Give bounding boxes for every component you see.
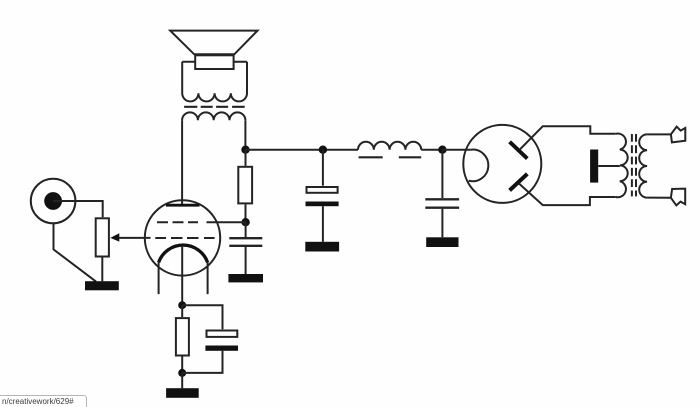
- output transformer T1 secondary winding: [182, 112, 245, 120]
- wire: plate 1 to T2 HT top: [520, 126, 616, 150]
- browser status bar: [0, 395, 87, 407]
- node A (B+ at secondary/screen resistor): [241, 146, 249, 154]
- ground (input): [85, 281, 119, 290]
- speaker LS1 magnet: [195, 55, 233, 69]
- wire: pot bottom to ground: [101, 258, 103, 282]
- wire: jack tip to pot top: [53, 201, 103, 217]
- wire: centre tap: [598, 165, 620, 167]
- capacitor C2 bottom plate: [205, 346, 238, 351]
- speaker LS1 cone: [170, 31, 257, 55]
- capacitor C1 (screen bypass) top plate: [229, 237, 262, 239]
- potentiometer VR1 body: [96, 218, 109, 256]
- wire: screen node to C1: [245, 222, 247, 237]
- resistor R2 (cathode bias): [181, 305, 183, 317]
- mains arrow (bottom, pointing NE): [671, 189, 685, 206]
- output transformer T1 core (dashed line): [184, 106, 245, 108]
- ground (cathode): [166, 388, 199, 398]
- power transformer T2 centre-tap chassis bar: [590, 150, 598, 183]
- resistor R1 (screen dropper): [245, 150, 247, 166]
- wire: choke to node C: [421, 149, 442, 151]
- wire: T1 secondary left to V1 anode: [181, 120, 183, 204]
- capacitor C2 (cathode bypass) branch wires: [182, 305, 222, 373]
- output transformer T1 primary winding (cup with scalloped bottom): [182, 62, 247, 102]
- power transformer T2 core (two dashed lines): [632, 134, 636, 196]
- rectifier V2 plate 1 (top): [510, 142, 528, 159]
- ground (screen bypass): [228, 274, 263, 282]
- wire: screen node to tube grid 2: [207, 221, 246, 223]
- wire: wiper to tube grid 1: [119, 237, 151, 239]
- ground (filter 1): [305, 242, 339, 252]
- potentiometer VR1 wiper arrow: [110, 233, 119, 241]
- capacitor C4 (filter 2): [441, 150, 443, 198]
- rectifier V2 envelope: [463, 125, 541, 203]
- power transformer T2 primary winding: [639, 134, 647, 197]
- ground (filter 2): [426, 237, 458, 247]
- wire: plate 2 to T2 HT bottom: [519, 184, 616, 205]
- wire: node K2 to ground: [181, 373, 183, 388]
- input jack J1 outer: [31, 179, 76, 224]
- node B (filter cap 1 tap): [319, 146, 327, 154]
- rectifier V2 plate 2 (bottom): [510, 174, 528, 191]
- capacitor C2 top plate: [207, 331, 238, 337]
- node C (filter cap 2 tap): [438, 146, 446, 154]
- wire: B+ bus node A to choke: [246, 149, 359, 151]
- wire: jack sleeve to ground (diagonal): [54, 224, 97, 282]
- capacitor C1 bottom plate: [229, 245, 262, 247]
- node D (screen grid node): [241, 218, 249, 226]
- input jack J1 tip contact: [44, 192, 62, 210]
- power transformer T2 HT secondary winding: [616, 134, 628, 198]
- mains arrow (top, pointing SE): [671, 127, 685, 143]
- capacitor C3 (filter 1, electrolytic): [322, 150, 324, 186]
- tube V1 envelope: [145, 200, 220, 275]
- wire: T2 primary top to mains arrow: [647, 133, 671, 135]
- wire: T1 secondary right down to node A: [244, 120, 246, 149]
- wire: cathode down to node K1: [181, 247, 183, 305]
- tube V1 cathode arc: [159, 245, 208, 262]
- choke L1: [358, 142, 421, 150]
- tube V1 grid 2 (screen, dashed): [157, 221, 198, 223]
- wire: node C to rectifier V2 filament: [442, 149, 470, 151]
- wire: C1 to ground: [245, 247, 247, 274]
- choke L1 core dashes: [359, 156, 422, 158]
- rectifier V2 filament hook: [469, 150, 489, 182]
- node K1 (cathode): [178, 301, 186, 309]
- tube V1 heater legs: [159, 262, 208, 294]
- wire: T2 primary bottom to mains arrow: [647, 197, 671, 199]
- tube V1 anode bar: [166, 204, 200, 207]
- tube V1 grid 1 (control, dashed): [155, 237, 214, 239]
- node K2: [178, 369, 186, 377]
